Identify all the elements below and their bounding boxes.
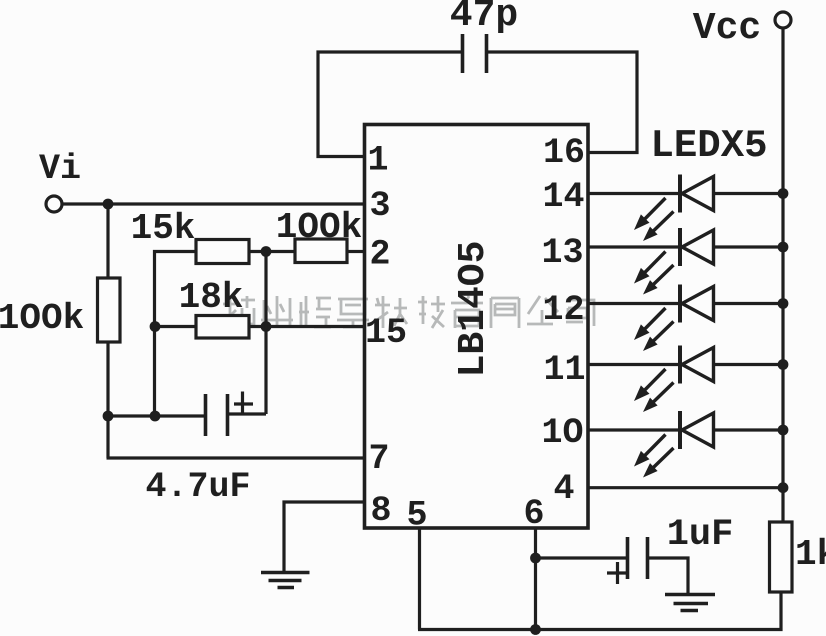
wire Vi to pin 3 [63, 202, 364, 205]
wire 47p right loop to pin 16 [487, 52, 637, 153]
polarity + of C3 [607, 562, 628, 584]
LED D4 triangle [682, 348, 714, 382]
wire LED4 to Vcc rail [714, 363, 784, 366]
LED D3 cathode bar [678, 285, 682, 323]
wire Vi node down to 100k [106, 204, 109, 278]
svg-text:14: 14 [542, 177, 584, 217]
wire 1k bottom [418, 592, 781, 630]
wire C2 right plate up branch [228, 412, 267, 415]
node junction 100k/4.7uF [103, 411, 114, 422]
wire C2 branch vertical [264, 252, 267, 415]
LED D4 cathode bar [678, 346, 682, 384]
wire pin14 to LED1 [589, 192, 680, 195]
resistor R3 100k horizontal [295, 239, 347, 263]
LED D4 emission arrows [644, 369, 666, 391]
wire C3 to ground [648, 558, 689, 593]
node rail junction 3 [778, 298, 789, 309]
wire 100k down to pin 7 [107, 342, 364, 458]
svg-text:4.7uF: 4.7uF [145, 467, 250, 507]
svg-text:7: 7 [368, 439, 389, 479]
node junction 15k-left/18k [150, 321, 161, 332]
capacitor C2 4.7uF plates [206, 394, 228, 436]
svg-text:1: 1 [367, 141, 388, 181]
ground GND2 [665, 595, 715, 611]
svg-text:8: 8 [370, 491, 391, 531]
wire Vcc rail [781, 29, 784, 523]
node rail junction 1 [778, 188, 789, 199]
node rail junction 4 [778, 359, 789, 370]
wire pin13 to LED2 [589, 245, 680, 248]
LED D5 emission arrows [644, 435, 666, 457]
svg-text:13: 13 [541, 233, 583, 273]
svg-text:1OOk: 1OOk [0, 298, 84, 339]
wire 18k to pin 15 [249, 325, 363, 328]
svg-text:16: 16 [543, 133, 585, 173]
node junction pin6/bottom wire [530, 624, 541, 635]
LED D1 emission arrows [644, 198, 666, 220]
resistor R1 100k vertical [98, 278, 121, 342]
svg-text:5: 5 [406, 496, 427, 536]
op-amp U1 LB1405 IC body [365, 125, 589, 529]
wire LED5 to Vcc rail [714, 428, 784, 431]
terminal Vi [46, 196, 62, 212]
node junction pin6/C3 [530, 553, 541, 564]
LED D2 emission arrows [644, 252, 666, 274]
wire LED3 to Vcc rail [714, 302, 784, 305]
node junction 15k-leg/C2 wire [150, 411, 161, 422]
wire pin10 to LED5 [589, 428, 680, 431]
watermark gray CJK-style text band [223, 296, 594, 328]
wire to C2 left plate [108, 414, 204, 417]
svg-text:3: 3 [369, 186, 390, 226]
LED D3 emission arrows [644, 308, 666, 330]
wire 47p left loop to pin 1 [318, 52, 461, 157]
node rail junction 5 [778, 425, 789, 436]
wire 18k left leg [155, 325, 197, 328]
node junction 18k/C2 branch [261, 321, 272, 332]
svg-text:1O: 1O [541, 413, 583, 453]
svg-text:4: 4 [553, 469, 574, 509]
svg-text:2: 2 [369, 235, 390, 275]
LED D1 cathode bar [678, 175, 682, 213]
svg-text:Vcc: Vcc [693, 7, 761, 50]
wire pin12 to LED3 [589, 302, 680, 305]
wire 100k to pin 2 [347, 250, 363, 253]
wire LED2 to Vcc rail [714, 245, 784, 248]
svg-text:1k: 1k [795, 534, 826, 575]
wire 15k to 100k [249, 250, 295, 253]
wire pin 4 to rail [589, 486, 783, 489]
node rail junction pin4 [778, 482, 789, 493]
svg-text:LEDX5: LEDX5 [650, 124, 767, 168]
svg-text:LB14O5: LB14O5 [452, 241, 495, 378]
resistor R2 15k [196, 240, 249, 264]
wire pin 8 to ground [284, 502, 364, 571]
wire LED1 to Vcc rail [714, 192, 784, 195]
svg-text:47p: 47p [450, 0, 518, 37]
node junction 15k/100k/C2 [261, 246, 272, 257]
capacitor C3 1uF plates [628, 537, 648, 579]
wire 15k left leg [155, 252, 197, 417]
node junction Vi/100k [103, 199, 114, 210]
ground GND1 [261, 573, 310, 588]
svg-text:Vi: Vi [39, 149, 81, 189]
wire pin6 node to C3 [536, 556, 627, 559]
svg-text:1uF: 1uF [667, 514, 734, 556]
svg-text:11: 11 [543, 350, 585, 390]
svg-text:12: 12 [542, 290, 584, 330]
LED D5 triangle [682, 413, 714, 447]
polarity + of C2 [234, 392, 253, 415]
capacitor C1 47p plates [463, 34, 487, 73]
resistor R5 1k [770, 522, 793, 592]
svg-text:18k: 18k [179, 277, 244, 318]
wire pin 5 down [418, 528, 421, 630]
svg-text:15: 15 [365, 313, 407, 353]
resistor R4 18k [196, 316, 249, 339]
LED D2 cathode bar [678, 228, 682, 266]
wire pin 6 down [534, 528, 537, 630]
terminal Vcc [775, 12, 791, 28]
LED D5 cathode bar [678, 411, 682, 449]
wire pin11 to LED4 [589, 363, 680, 366]
LED D2 triangle [682, 230, 714, 264]
LED D3 triangle [682, 287, 714, 321]
node rail junction 2 [778, 242, 789, 253]
LED D1 triangle [682, 177, 714, 211]
svg-text:15k: 15k [131, 208, 196, 249]
